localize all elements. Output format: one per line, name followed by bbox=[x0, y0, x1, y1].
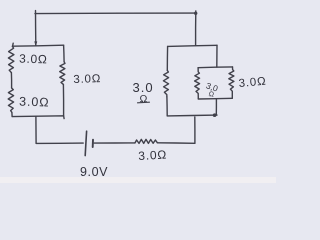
wire: left branch middle segment bbox=[10, 73, 12, 88]
wire: right outer box top side bbox=[168, 45, 217, 46]
junction blob at right box bottom bbox=[213, 113, 217, 117]
wire: left drop from top bus into left parallel box bbox=[35, 11, 37, 46]
resistor 3.0Ω (inner box right branch) bbox=[229, 67, 234, 98]
svg-text:Ω: Ω bbox=[208, 91, 214, 99]
battery positive plate (long) bbox=[85, 131, 86, 155]
svg-text:3.0Ω: 3.0Ω bbox=[19, 95, 50, 110]
resistor 3.0Ω (bottom series, horizontal zigzag) bbox=[135, 139, 157, 143]
wire: right outer box left branch lower segment bbox=[166, 97, 168, 116]
wire: left box top side bbox=[12, 45, 63, 46]
wire: right riser from bottom bus to right box bottom bbox=[194, 117, 196, 143]
svg-text:3.0Ω: 3.0Ω bbox=[238, 76, 267, 90]
wire: left box right branch upper segment bbox=[63, 45, 66, 62]
svg-text:3.0Ω: 3.0Ω bbox=[19, 52, 48, 67]
resistor 3.0Ω (left box right branch) bbox=[60, 62, 65, 85]
wire: right stub from outer top down to inner box top bbox=[216, 45, 218, 67]
junction arrowhead at left box top bbox=[35, 42, 37, 46]
wire: top bus from node A to node B bbox=[35, 12, 196, 15]
svg-text:3.0Ω: 3.0Ω bbox=[138, 148, 168, 163]
wire: drop from left box bottom to bottom bus bbox=[35, 116, 37, 143]
wire: bottom bus right segment to corner bbox=[157, 142, 195, 145]
wire: left branch to box bottom bbox=[11, 112, 13, 116]
wire: left box bottom side bbox=[12, 116, 64, 119]
resistor 3.0Ω (right outer left branch) bbox=[163, 70, 168, 96]
wire: bottom bus from battery to series resistor bbox=[94, 142, 135, 144]
resistor 3.0Ω (left branch, lower) bbox=[8, 88, 13, 112]
wire: left box right branch lower segment bbox=[62, 84, 64, 115]
wire: stub from inner box bottom to outer box bottom bbox=[215, 99, 217, 116]
junction blob at top-right corner bbox=[194, 12, 197, 15]
wire: inner box bottom side bbox=[198, 97, 232, 100]
wire: right drop from top bus into right network bbox=[195, 11, 197, 46]
wire: inner box top side bbox=[198, 66, 232, 69]
wire: right outer box bottom side bbox=[167, 114, 217, 117]
tick overshoot at left box top-left corner bbox=[12, 43, 15, 46]
resistor 3.0Ω (inner box left branch) bbox=[195, 68, 200, 99]
svg-text:Ω: Ω bbox=[140, 93, 148, 105]
wire: right outer box left branch upper segment bbox=[166, 46, 168, 70]
resistor 3.0Ω (left branch, upper) bbox=[8, 46, 14, 72]
svg-text:9.0V: 9.0V bbox=[80, 165, 108, 179]
wire: bottom bus left (to battery) bbox=[36, 142, 83, 144]
battery negative plate (short) bbox=[92, 140, 94, 147]
paper background bbox=[0, 0, 276, 183]
svg-text:3.0Ω: 3.0Ω bbox=[73, 73, 101, 86]
